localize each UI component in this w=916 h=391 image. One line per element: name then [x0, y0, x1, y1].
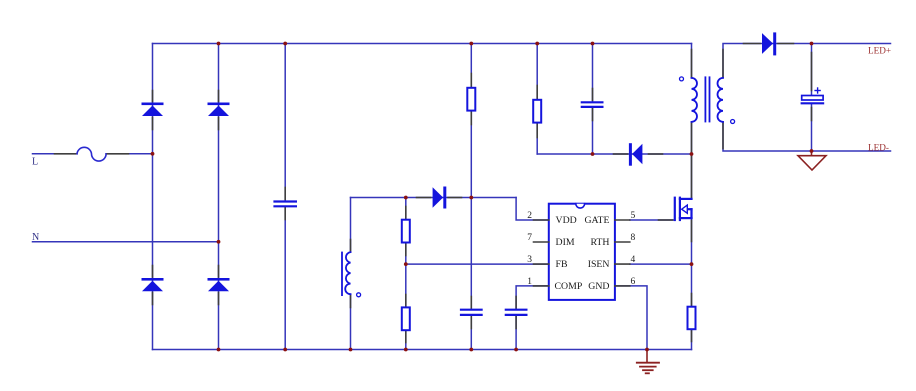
svg-text:6: 6 — [631, 277, 636, 287]
pin label DIM — [556, 237, 575, 248]
svg-text:1: 1 — [527, 277, 532, 287]
wire output cap column — [811, 44, 813, 152]
resistor R5 sense — [688, 294, 696, 342]
node N input junction — [217, 240, 221, 244]
svg-text:GND: GND — [588, 281, 609, 292]
node LED+ junction — [810, 42, 814, 46]
wire N input — [33, 241, 219, 243]
capacitor C1 bulk — [275, 188, 296, 220]
wire GND pin to ground — [615, 286, 647, 350]
node label L — [32, 157, 38, 168]
resistor R4 snubber — [533, 86, 541, 138]
resistor R3 lower divider — [402, 295, 410, 343]
wire FB row — [406, 263, 549, 265]
node L input junction — [151, 152, 155, 156]
ground earth symbol primary — [637, 350, 659, 374]
node LED- junction — [810, 149, 814, 153]
wire ISEN row — [630, 263, 692, 265]
wire bulk cap column — [284, 44, 286, 350]
bridge diode D1 top-left — [142, 91, 164, 130]
pin label GATE — [584, 215, 609, 226]
pin number 7 — [527, 233, 532, 243]
transistor Q1 MOSFET — [659, 157, 692, 242]
svg-text:COMP: COMP — [555, 281, 583, 292]
diode D7 output rectifier — [744, 32, 794, 55]
wire secondary bottom / LED- rail — [723, 122, 891, 151]
wire bridge left column — [152, 44, 154, 350]
wire top rail — [153, 43, 692, 45]
svg-text:FB: FB — [556, 259, 568, 270]
aux winding T1b — [342, 240, 361, 308]
pin number 2 — [527, 211, 532, 221]
svg-text:4: 4 — [631, 255, 636, 265]
capacitor C4 snubber — [582, 89, 603, 121]
svg-text:5: 5 — [631, 211, 636, 221]
pin number 1 — [527, 277, 532, 287]
wire GATE — [630, 219, 675, 221]
net label LED+ — [868, 45, 891, 55]
node bottom rail at ground — [645, 348, 649, 352]
node snubber at C4 — [591, 152, 595, 156]
node top rail at C4 — [591, 42, 595, 46]
node ISEN at source — [690, 262, 694, 266]
transformer T1 — [680, 50, 735, 152]
node top rail at R4 — [535, 42, 539, 46]
node bottom rail at C1 — [283, 348, 287, 352]
capacitor C5 output electrolytic — [802, 53, 823, 121]
ground chassis symbol secondary — [798, 151, 826, 170]
wire MOSFET source column — [691, 209, 693, 349]
node aux top at divider — [404, 196, 408, 200]
pin label VDD — [556, 215, 577, 226]
resistor R1 — [467, 74, 475, 125]
pin number 6 — [631, 277, 636, 287]
wire L input — [33, 153, 153, 155]
svg-text:VDD: VDD — [556, 215, 577, 226]
node clamp at drain — [690, 152, 694, 156]
wire secondary top / LED+ rail — [723, 44, 891, 78]
node label N — [32, 232, 39, 243]
pin label GND — [588, 281, 609, 292]
pin label COMP — [555, 281, 583, 292]
bridge diode D2 top-right — [208, 91, 230, 130]
svg-text:8: 8 — [631, 233, 636, 243]
node aux top at VDD column — [469, 196, 473, 200]
svg-text:LED+: LED+ — [868, 45, 891, 55]
pin label RTH — [590, 237, 609, 248]
node bottom rail at C2 — [469, 348, 473, 352]
node top rail at C1 — [283, 42, 287, 46]
wire bridge right column — [218, 44, 220, 350]
capacitor C2 — [461, 297, 482, 329]
node top rail at R1 — [469, 42, 473, 46]
capacitor C3 COMP — [506, 297, 527, 329]
pin 6 GND stub — [615, 285, 630, 287]
op-amp / controller IC U1 — [549, 204, 615, 300]
pin number 5 — [631, 211, 636, 221]
wire snubber bottom row — [537, 153, 691, 155]
svg-text:3: 3 — [527, 255, 532, 265]
net label LED- — [868, 143, 889, 153]
pin 8 RTH stub — [615, 241, 630, 243]
pin 7 DIM stub — [534, 241, 549, 243]
diode D6 clamp — [614, 143, 663, 166]
wire COMP — [516, 286, 549, 350]
wire bottom rail — [153, 349, 692, 351]
resistor R2 upper divider — [402, 207, 410, 256]
svg-text:DIM: DIM — [556, 237, 575, 248]
wire VDD to pin2 — [516, 198, 549, 221]
node bottom rail at D4 — [217, 348, 221, 352]
node top rail at D2 — [217, 42, 221, 46]
wire snubber resistor column — [536, 44, 538, 155]
bridge diode D4 bottom-right — [208, 266, 230, 305]
pin 3 FB stub — [534, 263, 549, 265]
wire aux winding bottom — [350, 294, 352, 349]
svg-text:2: 2 — [527, 211, 532, 221]
pin 4 ISEN stub — [615, 263, 630, 265]
wire aux winding top — [351, 198, 517, 253]
pin 1 COMP stub — [534, 285, 549, 287]
wire divider column — [405, 198, 407, 350]
svg-text:RTH: RTH — [590, 237, 609, 248]
svg-text:L: L — [32, 157, 38, 168]
pin number 3 — [527, 255, 532, 265]
pin number 4 — [631, 255, 636, 265]
wire MOSFET drain column — [691, 44, 693, 199]
fuse F1 — [55, 147, 129, 161]
wire VDD column — [470, 44, 472, 350]
svg-text:LED-: LED- — [868, 143, 889, 153]
wire snubber cap column — [592, 44, 594, 155]
pin number 8 — [631, 233, 636, 243]
pin label FB — [556, 259, 568, 270]
bridge diode D3 bottom-left — [142, 266, 164, 305]
node FB divider junction — [404, 262, 408, 266]
pin 5 GATE stub — [615, 219, 630, 221]
svg-text:GATE: GATE — [584, 215, 609, 226]
svg-text:ISEN: ISEN — [588, 259, 610, 270]
pin 2 VDD stub — [534, 219, 549, 221]
node bottom rail at aux — [349, 348, 353, 352]
diode D5 aux rectifier — [417, 187, 462, 209]
svg-text:N: N — [32, 232, 39, 243]
svg-text:7: 7 — [527, 233, 532, 243]
node bottom rail at C3 — [514, 348, 518, 352]
pin label ISEN — [588, 259, 610, 270]
node bottom rail at R3 — [404, 348, 408, 352]
